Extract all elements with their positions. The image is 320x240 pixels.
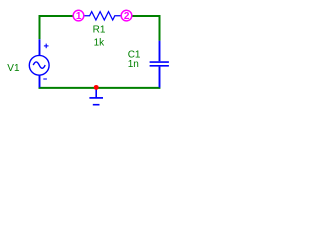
svg-text:R1: R1 bbox=[93, 25, 106, 36]
svg-text:1k: 1k bbox=[94, 37, 106, 48]
svg-text:1n: 1n bbox=[128, 59, 139, 70]
svg-text:1: 1 bbox=[76, 11, 82, 22]
svg-text:2: 2 bbox=[124, 11, 130, 22]
svg-text:V1: V1 bbox=[7, 63, 20, 74]
